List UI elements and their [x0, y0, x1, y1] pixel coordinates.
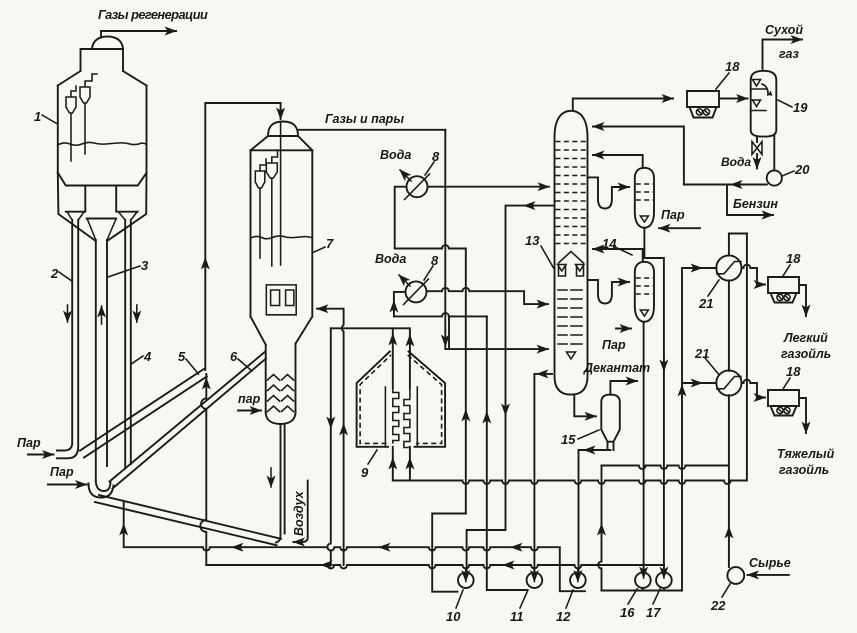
wire cooler to separator — [719, 98, 748, 100]
feed riser from pump 22 through exchangers — [729, 234, 747, 568]
condenser E8a circle — [407, 176, 428, 197]
air lift line (twin diagonal) — [95, 495, 281, 545]
arrow down into pump P12 — [577, 569, 579, 582]
dry gas outlet — [763, 40, 803, 71]
heat exchanger E21a internal baffle — [717, 262, 741, 274]
svg-text:Сырье: Сырье — [749, 556, 791, 570]
column C13 shell — [555, 111, 588, 395]
furnace outlet downcomer — [327, 328, 330, 565]
arrows up into furnace bottom — [392, 458, 394, 474]
reactor R7 internal box with slots — [266, 285, 296, 315]
pump P11 — [527, 572, 543, 588]
reactor R7 cap base and shoulder — [251, 136, 313, 150]
air cooler A18b box — [768, 277, 799, 303]
stripper S14b trays dashed — [636, 278, 653, 294]
separator water drain valve — [756, 137, 758, 142]
arrow down on side draw riser — [505, 400, 507, 415]
heavy gasoil product arrow — [799, 398, 806, 433]
arrow down into reactor dome — [280, 103, 282, 119]
arrow up on feed line — [205, 378, 207, 392]
svg-text:17: 17 — [646, 605, 661, 620]
transfer line 5 to riser (twin diagonal) — [80, 369, 207, 458]
regenerator R1 cyclone B — [80, 74, 97, 154]
wire E21b to air cooler A18c — [742, 380, 766, 398]
air cooler A18c box — [768, 390, 799, 416]
reactor R7 cyclone B — [266, 151, 277, 266]
wire E8b inlet loop with up arrow — [394, 292, 487, 317]
air cooler A18a fans — [696, 109, 709, 115]
svg-text:18: 18 — [725, 59, 740, 74]
column C13 overhead vapour line to cooler — [573, 99, 673, 111]
gasoline product branch — [727, 185, 773, 216]
svg-text:пар: пар — [238, 392, 261, 406]
stripper S14b shell — [635, 262, 654, 322]
wire steam-2 arrow — [48, 484, 87, 486]
arrow up on reactor recycle — [343, 424, 345, 438]
column C13 internal funnels with triangles — [558, 265, 585, 277]
wire vapours line from reactor cap — [298, 129, 445, 131]
svg-text:Легкий: Легкий — [783, 331, 828, 345]
svg-text:20: 20 — [794, 162, 810, 177]
stripper S14a shell — [635, 168, 654, 228]
arrow up on furnace riser 2 — [409, 335, 411, 348]
standpipe 2 (twin line, to steam elbow) — [57, 220, 78, 458]
wire E8a inlet loop — [395, 187, 466, 249]
air inlet stub — [294, 481, 308, 542]
catalyst drop pipe from stripper 6 (twin) — [276, 424, 285, 543]
svg-text:Бензин: Бензин — [733, 197, 778, 211]
regenerator R1 body walls — [58, 86, 147, 173]
riser to reactor (vertical + top run) — [205, 103, 280, 370]
separator S19 shell — [751, 71, 777, 137]
hot recycle vertical to reactor — [342, 309, 344, 565]
svg-text:Воздух: Воздух — [292, 490, 306, 536]
column C13 vapour distributor chevron — [559, 252, 584, 264]
arrows down on P17 feed — [663, 355, 665, 371]
svg-text:18: 18 — [786, 251, 801, 266]
svg-text:16: 16 — [620, 605, 635, 620]
wire E8a outlet to column — [428, 186, 550, 188]
heat exchanger E21b circle — [716, 370, 741, 395]
condenser E8b diagonal — [404, 279, 429, 305]
stripper S14a trays dashed — [636, 184, 653, 200]
wire regeneration gas outlet with arrow — [101, 31, 176, 38]
svg-text:Декантат: Декантат — [583, 361, 650, 375]
arrow down on vapour downcomer — [444, 330, 446, 346]
transfer line 6 to stripper vessel (twin diagonal) — [110, 352, 267, 489]
svg-text:Пар: Пар — [602, 338, 626, 352]
condenser E8a diagonal — [405, 174, 430, 200]
air cooler A18c fans — [777, 407, 790, 413]
pump P10 discharge riser — [465, 249, 467, 514]
reactor R7 level wavy line — [251, 236, 312, 239]
settler vessel 15 shell — [601, 395, 620, 450]
svg-text:8: 8 — [431, 253, 439, 268]
light gasoil product arrow — [799, 285, 806, 316]
svg-text:Пар: Пар — [661, 208, 685, 222]
heat exchanger E21b internal baffle — [717, 377, 741, 389]
svg-text:Пар: Пар — [17, 436, 41, 450]
furnace F9 feed risers from bus — [393, 447, 410, 481]
svg-text:12: 12 — [556, 609, 571, 624]
svg-text:Вода: Вода — [375, 252, 406, 266]
gasoil cross line right — [602, 466, 728, 469]
furnace F9 inner dashed shell — [360, 355, 442, 443]
svg-text:Вода: Вода — [721, 155, 751, 169]
pump P22 — [727, 567, 744, 584]
arrow left on side draw — [524, 205, 536, 207]
svg-text:Пар: Пар — [50, 465, 74, 479]
bus line upper (to lift pot) — [124, 501, 585, 591]
svg-text:18: 18 — [786, 364, 801, 379]
wire recycle arrow into reactor right wall — [317, 308, 342, 310]
condenser E8b water arrow — [399, 275, 410, 286]
arrow down on standpipe 2 — [67, 305, 69, 322]
wire column side draw to pumps — [467, 206, 554, 573]
regenerator R1 bottom chamfers and grid — [58, 173, 147, 219]
stripper S14b bottoms to pump P16 — [643, 322, 645, 573]
wire steam-1 arrow — [28, 454, 54, 456]
stripper S14b bottom triangle — [640, 310, 648, 316]
stripper vessel 6 walls — [266, 344, 296, 413]
svg-text:22: 22 — [710, 598, 726, 613]
arrow down on furnace outlet downcomer — [330, 412, 332, 428]
svg-text:4: 4 — [143, 349, 152, 364]
svg-text:Тяжелый: Тяжелый — [777, 447, 835, 461]
regenerator R1 neck — [81, 49, 124, 71]
column C13 bottoms stub to settler — [574, 395, 596, 417]
svg-text:1: 1 — [34, 109, 41, 124]
stripper S14a U-seal draw — [588, 177, 630, 208]
svg-text:газойль: газойль — [781, 347, 831, 361]
svg-text:Вода: Вода — [380, 148, 411, 162]
air cooler A18a box — [687, 91, 719, 118]
wire pump 20 discharge (reflux + product) — [684, 184, 767, 186]
arrow up at lift pot return — [123, 524, 125, 538]
arrows left on upper bus — [232, 546, 248, 548]
furnace F9 right heater comb — [404, 387, 417, 448]
pump P17 — [656, 572, 672, 588]
pump P16 — [635, 572, 651, 588]
lift-pot junction pocket — [89, 481, 114, 498]
stripper vessel 6 chevron packing — [268, 375, 294, 412]
condenser E8a water arrow — [400, 170, 411, 181]
arrows up on gasoil discharge riser — [681, 385, 683, 399]
feed preheat bus — [393, 234, 747, 484]
arrow up on riser — [204, 258, 206, 276]
arrow up on P10 riser — [465, 410, 467, 424]
svg-text:Газы и пары: Газы и пары — [325, 112, 404, 126]
pump P10 — [458, 572, 474, 588]
arrow down into pump P10 — [465, 569, 467, 582]
furnace F9 outer shell — [357, 352, 446, 447]
regenerator R1 shoulder — [58, 71, 147, 86]
separator S19 internals — [751, 80, 768, 111]
stripper S14a bottom triangle — [640, 216, 648, 222]
stripper S14a bottoms to pump P17 — [644, 228, 664, 573]
water drain arrow — [756, 154, 758, 169]
reactor R7 body walls — [251, 150, 313, 316]
regenerator R1 outlet funnels — [67, 212, 137, 240]
pump P11 feed riser — [487, 316, 527, 590]
column C13 lower liquid dashes — [558, 290, 582, 344]
wire E8b loop branch downcomer — [448, 316, 450, 349]
settler 15 bottoms to pump P12 — [579, 450, 611, 573]
pump P12 — [570, 572, 586, 588]
wire steam arrow into S14a — [659, 227, 700, 229]
svg-text:11: 11 — [510, 609, 524, 624]
furnace F9 left heater comb — [385, 387, 398, 447]
stripper S14b vapour return — [593, 249, 643, 262]
condenser E8b circle — [406, 281, 427, 302]
regenerator R1 liquid level wavy line — [58, 142, 147, 145]
svg-text:Газы регенерации: Газы регенерации — [98, 7, 208, 22]
regenerator R1 cyclone A — [66, 86, 76, 161]
svg-text:2: 2 — [50, 266, 59, 281]
arrow down beside drop pipe — [270, 468, 272, 487]
reactor R7 cyclone A — [255, 159, 266, 258]
wire light gasoil into E21a — [682, 267, 716, 269]
arrows left on lower bus — [321, 564, 337, 566]
arrow down on P16 feed — [643, 563, 645, 578]
column C13 bottom triangle mark — [567, 352, 576, 359]
arrow left on column bottoms — [537, 373, 545, 375]
svg-text:6: 6 — [230, 349, 238, 364]
furnace outlet shelf line — [331, 328, 410, 351]
svg-text:8: 8 — [432, 149, 440, 164]
riser standpipe 3 (twin line) — [96, 240, 107, 481]
wire E8b outlet run — [427, 288, 549, 304]
svg-text:19: 19 — [793, 100, 808, 115]
arrow down into pump P11 — [533, 569, 535, 582]
svg-text:7: 7 — [326, 236, 334, 251]
arrow up into E8b — [393, 301, 395, 312]
svg-text:3: 3 — [141, 258, 149, 273]
svg-text:5: 5 — [178, 349, 186, 364]
arrow down on standpipe 4 — [136, 305, 138, 322]
wire steam arrow into S14b — [616, 328, 631, 330]
feed inlet arrow Сырье — [748, 574, 789, 576]
pumps 16/17 discharge header — [602, 268, 683, 591]
wire E21a to air cooler A18b — [742, 265, 766, 285]
wire separator liquid to pump 20 — [773, 136, 775, 170]
arrow up on standpipe 3 — [101, 306, 103, 324]
reactor R7 dome cap — [268, 122, 298, 137]
svg-text:15: 15 — [561, 432, 576, 447]
arrow left on settler bottoms — [584, 449, 594, 451]
svg-text:21: 21 — [694, 346, 709, 361]
reactor R7 riser pipe inside — [280, 122, 282, 265]
wire steam arrow into stripper 6 — [238, 410, 261, 412]
column C13 upper trays (dashed) — [556, 142, 587, 244]
heat exchanger E21a circle — [716, 255, 741, 280]
regenerator R1 skirt — [58, 173, 147, 241]
pump P20 — [767, 170, 782, 185]
standpipe 4 (twin line) — [125, 220, 131, 469]
wire decant overflow arrow — [610, 381, 637, 395]
arrow up on pump22 riser — [728, 527, 730, 541]
air cooler A18b fans — [777, 294, 790, 300]
svg-text:9: 9 — [361, 465, 369, 480]
stripper S14a vapour return — [593, 155, 643, 168]
gasoil connector riser with up arrow — [598, 466, 601, 591]
arrow left on reflux run — [731, 184, 747, 186]
svg-text:газ: газ — [779, 47, 799, 61]
svg-text:21: 21 — [698, 296, 713, 311]
furnace riser pipe 2 upper — [409, 352, 411, 389]
svg-text:Сухой: Сухой — [765, 23, 803, 37]
wire heavy gasoil into E21b — [682, 382, 716, 384]
bus line lower (to riser feed) — [206, 565, 664, 568]
reactor R7 cone to stripper vessel — [251, 317, 313, 345]
svg-text:13: 13 — [525, 233, 540, 248]
stripper S14b U-seal draw — [588, 280, 630, 304]
column bottoms line to pump P11 — [534, 374, 552, 573]
svg-text:10: 10 — [446, 609, 461, 624]
regenerator R1 dome cap — [92, 37, 123, 50]
svg-text:газойль: газойль — [779, 463, 829, 477]
reflux line into column top — [593, 127, 684, 185]
pump P10 suction loop — [432, 514, 466, 592]
stripper vessel 6 bottom dome — [266, 413, 296, 424]
main vapour downcomer to column — [445, 130, 548, 349]
arrow up on P11 riser — [486, 412, 488, 426]
furnace riser pipe 1 with up arrow — [392, 328, 394, 388]
feed line below riser junction with hops — [200, 374, 206, 565]
